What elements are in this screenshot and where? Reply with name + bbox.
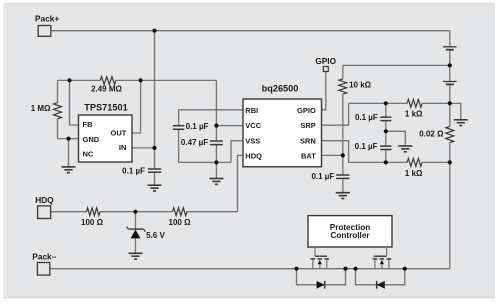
svg-text:GPIO: GPIO <box>297 106 316 115</box>
svg-text:GND: GND <box>83 135 100 144</box>
svg-text:1 kΩ: 1 kΩ <box>405 109 423 118</box>
svg-text:0.02 Ω: 0.02 Ω <box>419 129 444 138</box>
svg-text:10 kΩ: 10 kΩ <box>349 80 372 89</box>
svg-text:BAT: BAT <box>301 151 316 160</box>
svg-text:GPIO: GPIO <box>315 56 336 66</box>
svg-text:0.1 µF: 0.1 µF <box>311 172 334 181</box>
svg-text:VCC: VCC <box>245 121 261 130</box>
svg-text:FB: FB <box>83 120 94 129</box>
svg-text:2.49 MΩ: 2.49 MΩ <box>91 85 122 94</box>
svg-text:Pack+: Pack+ <box>35 14 59 24</box>
svg-text:TPS71501: TPS71501 <box>84 103 127 113</box>
svg-text:HDQ: HDQ <box>245 151 262 160</box>
svg-text:5.6 V: 5.6 V <box>146 231 165 240</box>
svg-text:RBI: RBI <box>245 106 258 115</box>
svg-text:100 Ω: 100 Ω <box>81 218 104 227</box>
svg-text:OUT: OUT <box>111 128 127 137</box>
svg-text:Controller: Controller <box>330 231 370 240</box>
svg-text:SRN: SRN <box>300 136 316 145</box>
svg-text:SRP: SRP <box>300 121 315 130</box>
svg-text:0.1 µF: 0.1 µF <box>355 113 378 122</box>
svg-text:0.1 µF: 0.1 µF <box>186 122 209 131</box>
svg-text:IN: IN <box>119 143 127 152</box>
svg-text:VSS: VSS <box>245 136 260 145</box>
svg-text:0.1 µF: 0.1 µF <box>122 166 145 175</box>
svg-text:0.1 µF: 0.1 µF <box>355 142 378 151</box>
svg-text:HDQ: HDQ <box>35 195 54 205</box>
svg-text:Pack–: Pack– <box>32 251 56 261</box>
svg-text:bq26500: bq26500 <box>262 83 299 93</box>
svg-text:0.47 µF: 0.47 µF <box>181 138 208 147</box>
svg-text:1 MΩ: 1 MΩ <box>31 104 51 113</box>
svg-text:100 Ω: 100 Ω <box>169 218 192 227</box>
svg-text:1 kΩ: 1 kΩ <box>405 169 423 178</box>
svg-text:NC: NC <box>83 149 94 158</box>
